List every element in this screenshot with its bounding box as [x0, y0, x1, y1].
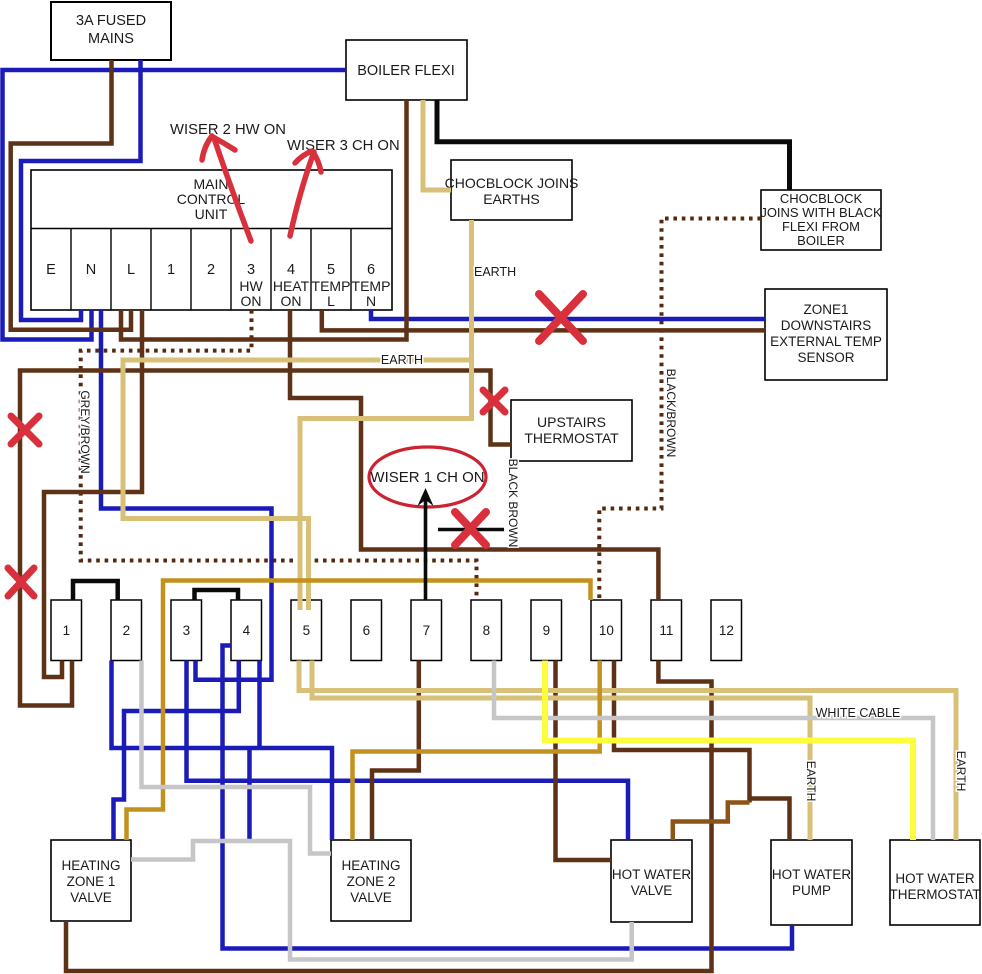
- wire earth tan boiler flexi to chocblock earths: [423, 100, 451, 190]
- svg-text:BLACK/BROWN: BLACK/BROWN: [664, 369, 678, 458]
- wire earth tan horizontal branch to terminal 5: [123, 360, 470, 610]
- red ellipse WISER 1 CH ON: [369, 447, 486, 507]
- svg-text:3: 3: [247, 262, 255, 278]
- svg-text:TEMP: TEMP: [312, 278, 351, 294]
- wire blue terminal 2 to zone 2 valve: [112, 661, 333, 841]
- svg-text:6: 6: [363, 623, 371, 638]
- terminal strip boxes 1-12: [51, 600, 742, 661]
- wire blue terminal 4 right leg to junction: [257, 661, 262, 749]
- svg-text:VALVE: VALVE: [350, 890, 392, 905]
- svg-text:CHOCBLOCK: CHOCBLOCK: [780, 191, 863, 206]
- wire dotted grey/brown from cell 3 to terminal 8: [81, 310, 477, 600]
- svg-text:10: 10: [599, 623, 614, 638]
- wire grey white cable terminal 8 to hot water thermostat: [494, 661, 933, 841]
- wire gold terminal 10 to heating zone 2 valve: [353, 661, 600, 841]
- wire brown 3A mains to L: [11, 60, 131, 330]
- svg-text:2: 2: [123, 623, 131, 638]
- wire brown terminal 7 to zone 2 valve: [372, 661, 419, 841]
- box HEATING ZONE 1 VALVE: [51, 840, 131, 921]
- svg-text:VALVE: VALVE: [631, 883, 673, 898]
- svg-text:WISER 3 CH ON: WISER 3 CH ON: [287, 138, 400, 154]
- wire brown TEMP L to zone1 sensor: [322, 310, 765, 330]
- box HOT WATER VALVE: [611, 840, 692, 922]
- red X left lower: [8, 568, 34, 596]
- svg-text:WISER 1 CH ON: WISER 1 CH ON: [370, 469, 484, 486]
- wire blue stub at x=249.5: [247, 748, 252, 839]
- box ZONE1 DOWNSTAIRS EXTERNAL TEMP SENSOR: [765, 289, 887, 380]
- red X upstairs thermostat: [483, 390, 505, 412]
- wire blue terminal 3 to hot water valve: [187, 661, 629, 841]
- box CHOCBLOCK JOINS WITH BLACK FLEXI FROM BOILER: [760, 190, 882, 250]
- svg-text:2: 2: [207, 262, 215, 278]
- wire gold terminal 10 to heating zone 1 valve: [127, 581, 591, 841]
- svg-text:HOT WATER: HOT WATER: [895, 871, 974, 886]
- box 3A FUSED MAINS: [51, 2, 171, 60]
- svg-text:1: 1: [167, 262, 175, 278]
- svg-text:12: 12: [719, 623, 734, 638]
- svg-text:MAINS: MAINS: [88, 31, 134, 47]
- svg-text:TEMP: TEMP: [352, 278, 391, 294]
- wire yellow terminal 9 to hot water thermostat: [545, 661, 913, 841]
- svg-text:3A FUSED: 3A FUSED: [76, 13, 146, 29]
- svg-text:HEAT: HEAT: [273, 278, 310, 294]
- box HEATING ZONE 2 VALVE: [331, 840, 411, 921]
- svg-text:CHOCBLOCK JOINS: CHOCBLOCK JOINS: [445, 175, 579, 191]
- svg-text:E: E: [46, 262, 56, 278]
- svg-text:WHITE CABLE: WHITE CABLE: [816, 706, 901, 720]
- svg-text:UPSTAIRS: UPSTAIRS: [537, 414, 606, 430]
- wire black boiler flexi to chocblock: [437, 100, 790, 190]
- svg-text:BLACK BROWN: BLACK BROWN: [506, 459, 520, 548]
- wire blue terminal 4 to heating zone 1 valve: [114, 661, 239, 841]
- svg-text:HW: HW: [239, 278, 263, 294]
- wire black bridge terminals 3-4: [195, 590, 239, 600]
- svg-text:DOWNSTAIRS: DOWNSTAIRS: [781, 318, 872, 333]
- svg-text:EARTH: EARTH: [804, 761, 818, 801]
- svg-text:ON: ON: [241, 293, 262, 309]
- svg-text:4: 4: [287, 262, 295, 278]
- svg-text:EARTH: EARTH: [381, 353, 423, 367]
- svg-text:5: 5: [303, 623, 311, 638]
- wire brown terminal 9 to hot water valve: [556, 661, 612, 861]
- svg-text:WISER 2 HW ON: WISER 2 HW ON: [170, 122, 286, 138]
- svg-text:BOILER FLEXI: BOILER FLEXI: [357, 63, 455, 79]
- wire black bridge terminals 1-2: [73, 581, 118, 600]
- wire blue 3A mains to N: [21, 60, 141, 320]
- svg-text:HOT WATER: HOT WATER: [612, 867, 691, 882]
- wire earth tan chocblock down to terminal 5: [300, 220, 472, 610]
- wire brown L to boiler flexi: [121, 100, 407, 340]
- svg-text:PUMP: PUMP: [792, 883, 831, 898]
- svg-text:SENSOR: SENSOR: [797, 350, 854, 365]
- svg-text:N: N: [86, 262, 96, 278]
- svg-text:MAIN: MAIN: [194, 176, 229, 192]
- svg-text:4: 4: [243, 623, 251, 638]
- red X sensor lines: [539, 294, 583, 341]
- svg-text:L: L: [127, 262, 135, 278]
- svg-text:11: 11: [659, 623, 673, 638]
- svg-text:HOT WATER: HOT WATER: [772, 867, 851, 882]
- red X black brown line: [455, 512, 486, 545]
- svg-text:ZONE 2: ZONE 2: [347, 874, 396, 889]
- svg-text:ZONE 1: ZONE 1: [67, 874, 116, 889]
- wire blue terminal 4 side to hot water pump: [223, 646, 793, 949]
- svg-text:N: N: [366, 293, 376, 309]
- wire brown branch to hot water valve: [673, 803, 750, 841]
- svg-text:HEATING: HEATING: [61, 858, 120, 873]
- wire blue mains neutral via left edge to N: [3, 70, 347, 340]
- svg-text:3: 3: [183, 623, 191, 638]
- wire grey terminal 2 to zone 2 valve: [142, 661, 332, 854]
- wire brown terminal 1 to upstairs thermostat: [20, 371, 511, 706]
- svg-text:EARTH: EARTH: [474, 265, 516, 279]
- box HOT WATER PUMP: [771, 840, 852, 925]
- box CHOCBLOCK JOINS EARTHS: [445, 160, 579, 220]
- svg-text:6: 6: [367, 262, 375, 278]
- svg-text:HEATING: HEATING: [341, 858, 400, 873]
- red arrow wiser 3: [290, 151, 321, 236]
- svg-text:THERMOSTAT: THERMOSTAT: [524, 430, 619, 446]
- svg-text:UNIT: UNIT: [195, 206, 228, 222]
- svg-text:JOINS WITH BLACK: JOINS WITH BLACK: [760, 205, 882, 220]
- svg-text:THERMOSTAT: THERMOSTAT: [890, 887, 981, 902]
- wire brown HEAT ON to terminal 11: [290, 310, 658, 600]
- wire dotted black/brown chocblock to terminal 10: [599, 219, 761, 601]
- box BOILER FLEXI: [346, 40, 467, 100]
- svg-text:8: 8: [483, 623, 491, 638]
- svg-text:5: 5: [327, 262, 335, 278]
- svg-text:EARTHS: EARTHS: [483, 191, 540, 207]
- svg-text:7: 7: [423, 623, 431, 638]
- box HOT WATER THERMOSTAT: [890, 840, 981, 925]
- svg-text:EARTH: EARTH: [954, 751, 968, 791]
- wire brown terminal 11 to bottom rail to zone 1 valve: [66, 661, 712, 972]
- black crossed-out line: [438, 528, 504, 532]
- wire blue N down to terminal 3 and 4: [101, 310, 272, 680]
- wire grey zone 1 valve to hot water valve: [131, 841, 632, 960]
- black arrow into terminal 7: [424, 495, 428, 600]
- box UPSTAIRS THERMOSTAT: [511, 400, 632, 461]
- wire earth tan terminal 5 to hot water thermostat: [299, 661, 956, 841]
- svg-text:1: 1: [63, 623, 71, 638]
- red arrow wiser 2: [202, 136, 251, 241]
- svg-text:VALVE: VALVE: [70, 890, 112, 905]
- svg-text:GREY/BROWN: GREY/BROWN: [78, 390, 92, 473]
- svg-text:9: 9: [543, 623, 551, 638]
- wire blue TEMP N to zone1 sensor: [371, 310, 765, 319]
- red X left upper: [11, 416, 39, 444]
- wire brown terminal 10 to hot water pump: [614, 661, 750, 803]
- box MAIN CONTROL UNIT: [31, 170, 392, 310]
- svg-text:ZONE1: ZONE1: [803, 302, 848, 317]
- svg-text:FLEXI FROM: FLEXI FROM: [782, 219, 860, 234]
- svg-text:EXTERNAL TEMP: EXTERNAL TEMP: [770, 334, 882, 349]
- svg-text:L: L: [327, 293, 335, 309]
- svg-text:BOILER: BOILER: [797, 233, 845, 248]
- wire earth tan terminal 5 to hot water pump: [312, 661, 810, 841]
- wire brown L to terminal 1 left: [44, 310, 142, 677]
- svg-text:ON: ON: [281, 293, 302, 309]
